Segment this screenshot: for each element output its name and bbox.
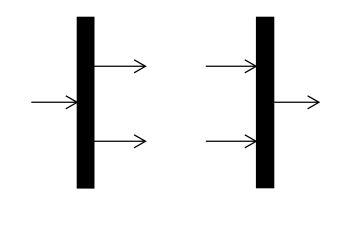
upper input arrow into T2 xyxy=(206,60,256,73)
input arrow into T1 xyxy=(31,96,77,109)
right transition bar T2 xyxy=(256,17,274,189)
output arrow from T2 xyxy=(274,96,319,109)
left transition bar T1 xyxy=(77,17,95,189)
lower output arrow from T1 xyxy=(95,135,146,148)
lower input arrow into T2 xyxy=(206,135,256,148)
upper output arrow from T1 xyxy=(95,60,146,73)
